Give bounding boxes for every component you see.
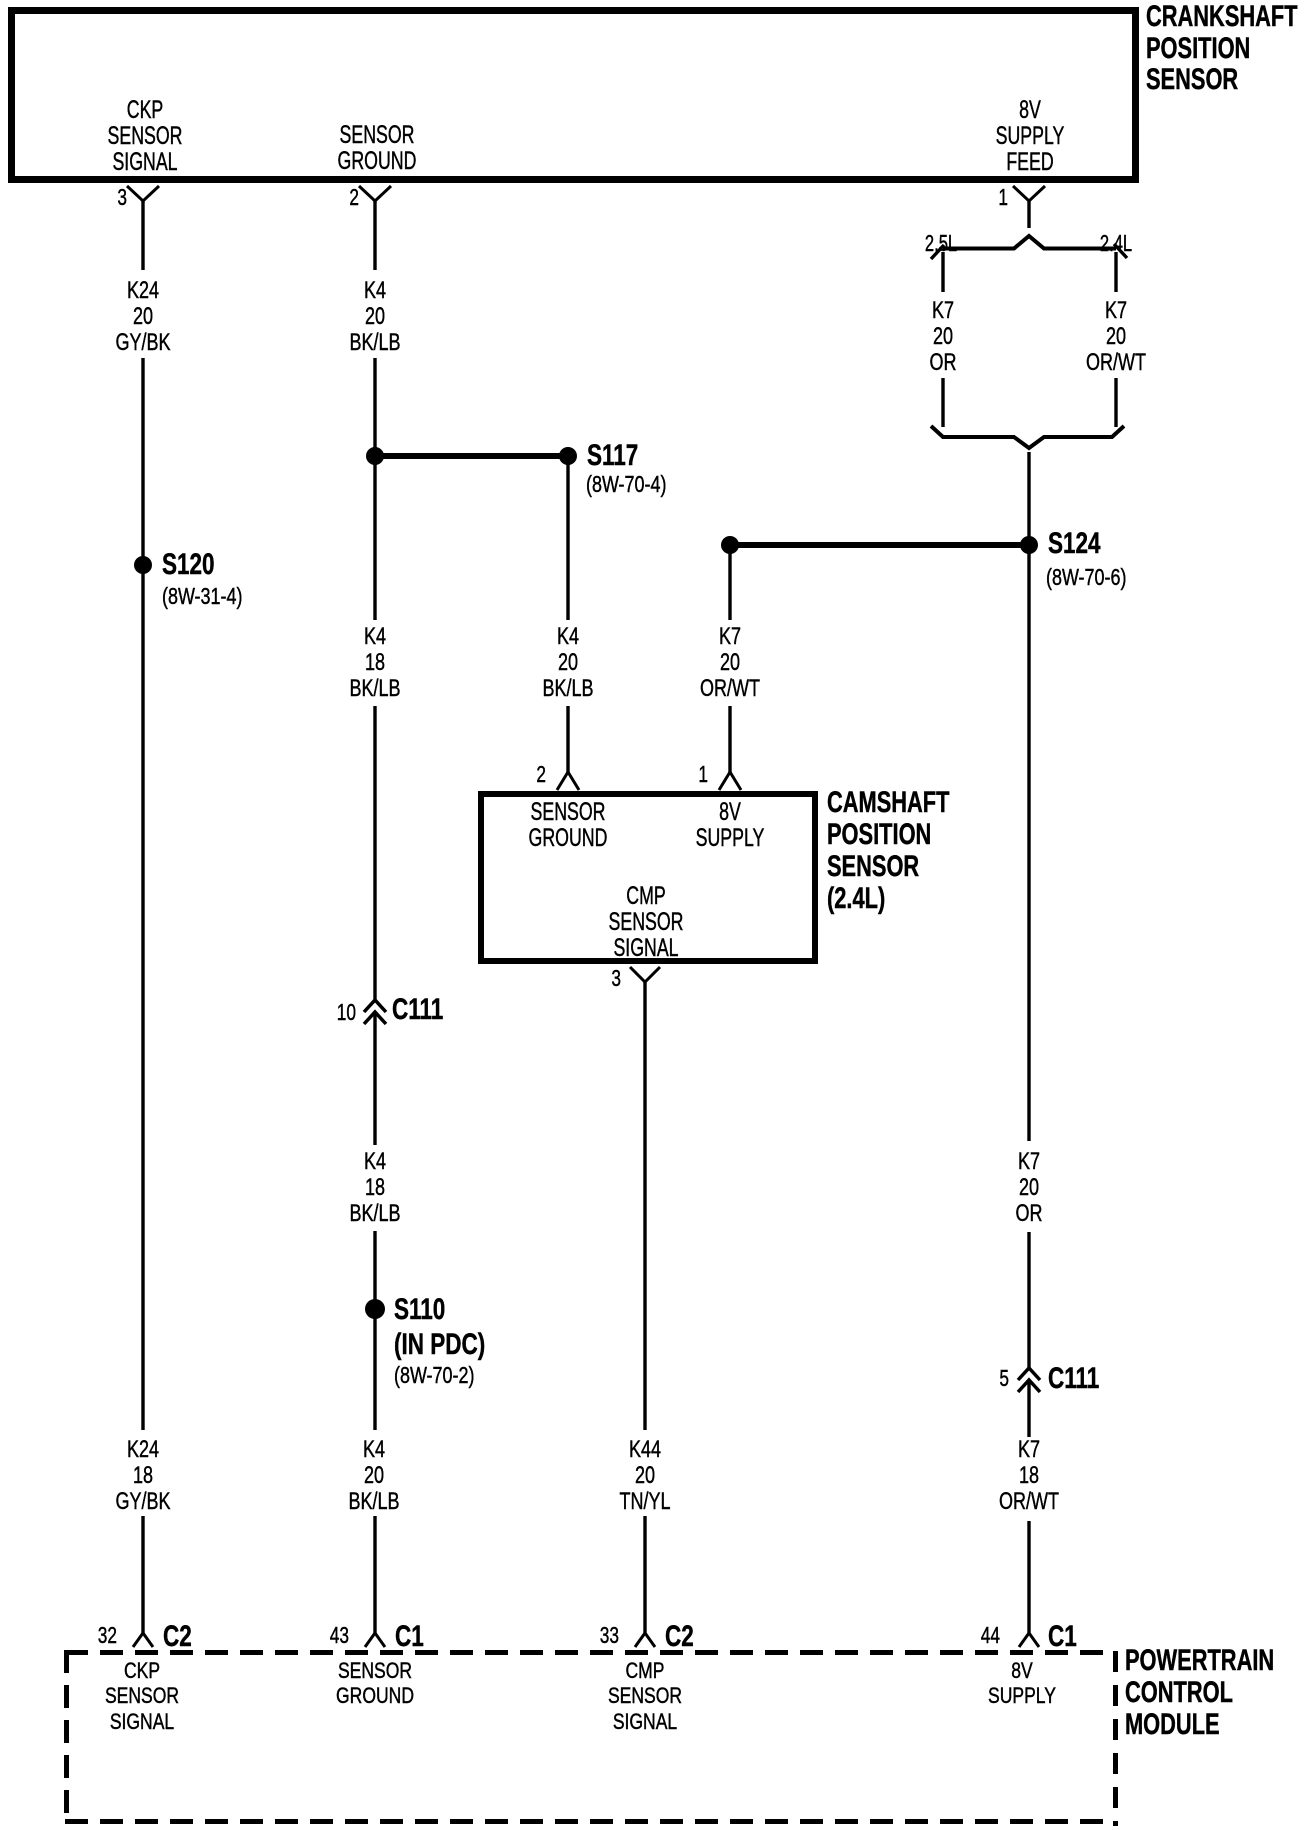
splice S110 dot [365, 1299, 385, 1319]
wire label K24 18 GY/BK [68, 1437, 218, 1515]
pin number 43 [304, 1622, 349, 1648]
wire label K4 20 BK/LB [493, 624, 643, 702]
reference 8W-70-4 [586, 471, 666, 497]
wire to S124 [730, 542, 1029, 548]
wire [373, 1516, 376, 1633]
pin number 10 [311, 999, 356, 1025]
crankshaft position sensor box [12, 11, 1136, 180]
2.5L branch tick [931, 245, 944, 259]
pin number 2 [314, 184, 359, 210]
wire [566, 456, 569, 620]
pin 1 connector (8V supply feed) [1013, 186, 1045, 201]
reference 8W-70-2 [394, 1362, 474, 1388]
wire [941, 378, 944, 427]
options join brace [931, 426, 1124, 448]
splice label S110 [394, 1293, 445, 1327]
wire label K4 18 BK/LB (lower) [300, 1149, 450, 1227]
wire [566, 706, 569, 772]
wire [728, 706, 731, 772]
wire [141, 200, 144, 270]
camshaft position sensor box [481, 794, 815, 961]
connector label C2 [163, 1620, 192, 1654]
wire [643, 981, 646, 1430]
splice label S117 [587, 439, 638, 473]
connector C111 pin 10 symbol [364, 1000, 386, 1024]
wire [373, 200, 376, 270]
pin number 33 [574, 1622, 619, 1648]
pin number 3 (CMP signal) [576, 965, 621, 991]
splice S117 dot [559, 447, 577, 465]
PCM pin 33 connector [635, 1633, 655, 1647]
wire label K7 20 OR (lower) [954, 1149, 1104, 1227]
wire [1027, 1232, 1030, 1368]
label 2.5L [905, 230, 977, 256]
wire [643, 1516, 646, 1633]
pin number 32 [72, 1622, 117, 1648]
title CRANKSHAFT POSITION SENSOR [1146, 1, 1298, 96]
wire label K7 20 OR/WT [1041, 298, 1191, 376]
wire to S117 [375, 453, 568, 459]
engine option split [943, 236, 1116, 249]
reference 8W-70-6 [1046, 564, 1126, 590]
PCM label 8V SUPPLY [944, 1658, 1100, 1709]
wire label K7 20 OR/WT [655, 624, 805, 702]
splice junction dot [721, 536, 739, 554]
pin number 1 [963, 184, 1008, 210]
label 8V SUPPLY FEED [952, 97, 1108, 175]
wire [1027, 452, 1030, 1141]
wire label K7 18 OR/WT [954, 1437, 1104, 1515]
pin number 5 [964, 1365, 1009, 1391]
wire [1114, 252, 1117, 292]
pin number 44 [955, 1622, 1000, 1648]
splice S120 dot [134, 556, 152, 574]
splice label S120 [162, 548, 215, 582]
PCM label CKP SENSOR SIGNAL [64, 1658, 220, 1735]
wire [1027, 1381, 1030, 1437]
PCM label CMP SENSOR SIGNAL [567, 1658, 723, 1735]
wire [1114, 378, 1117, 427]
wire label K4 18 BK/LB [300, 624, 450, 702]
wire [373, 1231, 376, 1430]
connector label C1 [395, 1620, 424, 1654]
label 2.4L [1080, 230, 1152, 256]
label SENSOR GROUND [299, 122, 455, 174]
splice label S124 [1048, 527, 1101, 561]
pin 3 connector (CKP sensor signal) [127, 186, 159, 201]
CMP pin 3 connector [630, 967, 660, 982]
wire [141, 358, 144, 1430]
PCM pin 44 connector [1019, 1633, 1039, 1647]
connector label C1 (44) [1048, 1620, 1077, 1654]
powertrain control module box (dashed) [65, 1650, 1116, 1826]
wire label K44 20 TN/YL [570, 1437, 720, 1515]
wire label K4 20 BK/LB [300, 278, 450, 356]
label CKP SENSOR SIGNAL [67, 97, 223, 175]
wire [141, 1516, 144, 1633]
pin number 1 (CMP) [663, 761, 708, 787]
label SENSOR GROUND (CMP) [490, 799, 646, 851]
title POWERTRAIN CONTROL MODULE [1125, 1645, 1274, 1740]
wire [1027, 1521, 1030, 1633]
wire [373, 706, 376, 1000]
PCM label SENSOR GROUND [297, 1658, 453, 1709]
splice S124 dot [1020, 536, 1038, 554]
connector label C111 (right) [1048, 1362, 1099, 1396]
CMP pin 2 connector [557, 772, 579, 790]
label IN PDC [394, 1328, 485, 1362]
label 8V SUPPLY (CMP) [652, 799, 808, 851]
pin number 2 (CMP) [501, 761, 546, 787]
pin 2 connector (sensor ground) [359, 186, 391, 201]
connector label C111 [392, 993, 443, 1027]
wire label K4 20 BK/LB (bottom) [299, 1437, 449, 1515]
PCM pin 32 connector [133, 1633, 153, 1647]
connector label C2 (33) [665, 1620, 694, 1654]
junction dot [366, 447, 384, 465]
wire [728, 545, 731, 620]
reference 8W-31-4 [162, 583, 242, 609]
wire [373, 358, 376, 620]
wire [941, 252, 944, 292]
pin number 3 [82, 184, 127, 210]
connector C111 pin 5 symbol [1018, 1368, 1040, 1392]
PCM pin 43 connector [365, 1633, 385, 1647]
label CMP SENSOR SIGNAL [568, 883, 724, 961]
wire [1027, 200, 1030, 228]
wire label K24 20 GY/BK [68, 278, 218, 356]
2.4L branch tick [1114, 244, 1127, 258]
wire label K7 20 OR [868, 298, 1018, 376]
CMP pin 1 connector [719, 772, 741, 790]
wire [373, 1013, 376, 1145]
title CAMSHAFT POSITION SENSOR (2.4L) [827, 787, 949, 914]
